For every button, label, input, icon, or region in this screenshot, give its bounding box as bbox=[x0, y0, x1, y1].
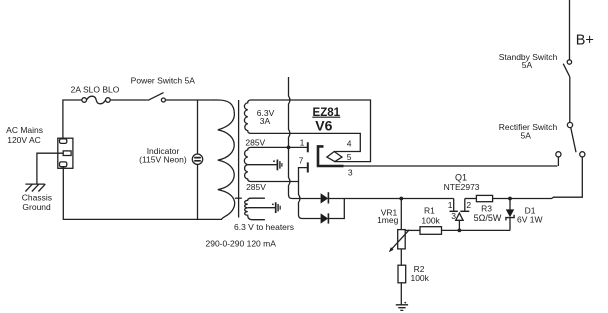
svg-text:NTE2973: NTE2973 bbox=[444, 182, 480, 192]
wire R2 to ground bbox=[400, 283, 402, 305]
svg-text:R3: R3 bbox=[481, 204, 492, 214]
power switch S1 bbox=[148, 93, 164, 101]
wire Q1 pin2 to R3 bbox=[465, 198, 477, 200]
wire standby switch to rectifier switch bbox=[569, 77, 571, 123]
tube V6 plate pin1 bbox=[307, 142, 309, 152]
wire pin7 to lower diode with hop bbox=[299, 168, 321, 219]
svg-text:3: 3 bbox=[451, 211, 456, 221]
junction Q1 gate node bbox=[458, 229, 462, 233]
resistor R1 100k bbox=[420, 227, 442, 235]
svg-text:3A: 3A bbox=[260, 116, 271, 126]
svg-text:Chassis: Chassis bbox=[22, 192, 52, 202]
tube V6 plate pin7 bbox=[307, 162, 309, 172]
tube V6 filament dart bbox=[327, 152, 342, 162]
transformer secondary 285-0-285 winding and pin1 lead bbox=[244, 147, 307, 181]
svg-text:6V 1W: 6V 1W bbox=[517, 215, 543, 225]
standby switch S2 bbox=[567, 60, 571, 64]
svg-text:2A SLO BLO: 2A SLO BLO bbox=[71, 84, 120, 94]
svg-text:1meg: 1meg bbox=[377, 215, 399, 225]
svg-text:B+: B+ bbox=[576, 32, 594, 48]
wire AC hot top: plug top prong up and right to fuse bbox=[63, 100, 82, 139]
potentiometer VR1 1meg bbox=[398, 230, 406, 249]
svg-text:5: 5 bbox=[347, 152, 352, 162]
junction VR1 branch bbox=[399, 197, 403, 201]
wire AC neutral: plug bottom prong down and right along bottom bbox=[63, 167, 222, 220]
diode upper rectifier bbox=[321, 193, 329, 203]
resistor R2 100k bbox=[398, 265, 406, 283]
transformer secondary 6.3V heater winding bbox=[245, 198, 265, 220]
transformer core bbox=[238, 100, 240, 218]
junction D1 branch bbox=[508, 197, 512, 201]
ground symbol (rotated) HV center tap bbox=[276, 160, 278, 171]
ground symbol (rotated) heater tap bbox=[275, 202, 277, 213]
wire lower diode up to main node bbox=[328, 199, 344, 219]
wire down to VR1 bbox=[400, 199, 402, 230]
chassis ground symbol bbox=[25, 184, 45, 191]
wire B+ line down to standby switch bbox=[569, 0, 571, 60]
svg-text:5A: 5A bbox=[520, 130, 531, 140]
ground symbol below R2 bbox=[396, 305, 408, 311]
wire plug middle prong to chassis ground bbox=[37, 153, 63, 184]
svg-text:R1: R1 bbox=[424, 206, 435, 216]
node indicator branch bbox=[197, 100, 199, 154]
svg-text:285V: 285V bbox=[246, 182, 266, 192]
wire switch to transformer primary with corner bbox=[165, 99, 214, 101]
svg-text:290-0-290 120 mA: 290-0-290 120 mA bbox=[205, 238, 276, 248]
svg-text:5A: 5A bbox=[522, 60, 533, 70]
svg-text:7: 7 bbox=[299, 155, 304, 165]
fuse F1 2A SLO BLO bbox=[82, 98, 87, 103]
svg-text:1: 1 bbox=[300, 137, 305, 147]
wire main B line diodes to Q1 bbox=[328, 198, 453, 200]
resistor R3 5ohm 5W bbox=[476, 195, 492, 201]
svg-text:100k: 100k bbox=[410, 273, 429, 283]
svg-text:V6: V6 bbox=[315, 117, 332, 133]
svg-text:4: 4 bbox=[347, 139, 352, 149]
wire HV top stub with hops down to upper diode bbox=[289, 77, 321, 199]
transformer T1 primary winding bbox=[214, 100, 235, 219]
junction pin1/HV node bbox=[287, 146, 291, 150]
core tick bbox=[235, 197, 242, 199]
svg-text:3: 3 bbox=[348, 168, 353, 178]
AC plug connector J1 bbox=[58, 138, 73, 168]
wire VR1 to R1 bbox=[405, 229, 420, 231]
svg-text:2: 2 bbox=[466, 200, 471, 210]
svg-text:120V AC: 120V AC bbox=[7, 135, 41, 145]
diode lower rectifier bbox=[321, 213, 329, 223]
svg-text:Ground: Ground bbox=[22, 202, 51, 212]
transformer secondary 6.3V 3A winding with pin4/pin5 heater wires bbox=[244, 100, 370, 162]
zener diode D1 6V 1W bbox=[509, 199, 511, 210]
svg-text:6.3 V to heaters: 6.3 V to heaters bbox=[234, 222, 294, 232]
svg-text:(115V Neon): (115V Neon) bbox=[139, 155, 187, 165]
wire cathode to rectifier switch bbox=[344, 157, 559, 166]
wire R3 to D1 node and rectifier switch bbox=[493, 157, 583, 199]
wire R1 to D1 lower bus bbox=[442, 229, 511, 231]
svg-text:100k: 100k bbox=[421, 215, 440, 225]
svg-text:Power Switch 5A: Power Switch 5A bbox=[131, 76, 196, 86]
svg-text:285V: 285V bbox=[245, 138, 265, 148]
svg-text:5Ω/5W: 5Ω/5W bbox=[474, 213, 502, 223]
tube V6 cathode bracket bbox=[318, 146, 344, 166]
svg-text:AC Mains: AC Mains bbox=[6, 125, 43, 135]
svg-text:1: 1 bbox=[448, 200, 453, 210]
indicator neon lamp bbox=[192, 154, 202, 164]
transistor Q1 NTE2973 bbox=[453, 199, 455, 212]
rectifier switch S3 bbox=[567, 122, 572, 127]
wire fuse to power switch bbox=[110, 99, 148, 101]
heater center tap wire bbox=[248, 207, 276, 209]
wire VR1 bottom to R2 bbox=[400, 249, 402, 265]
HV center tap wire bbox=[248, 164, 277, 166]
